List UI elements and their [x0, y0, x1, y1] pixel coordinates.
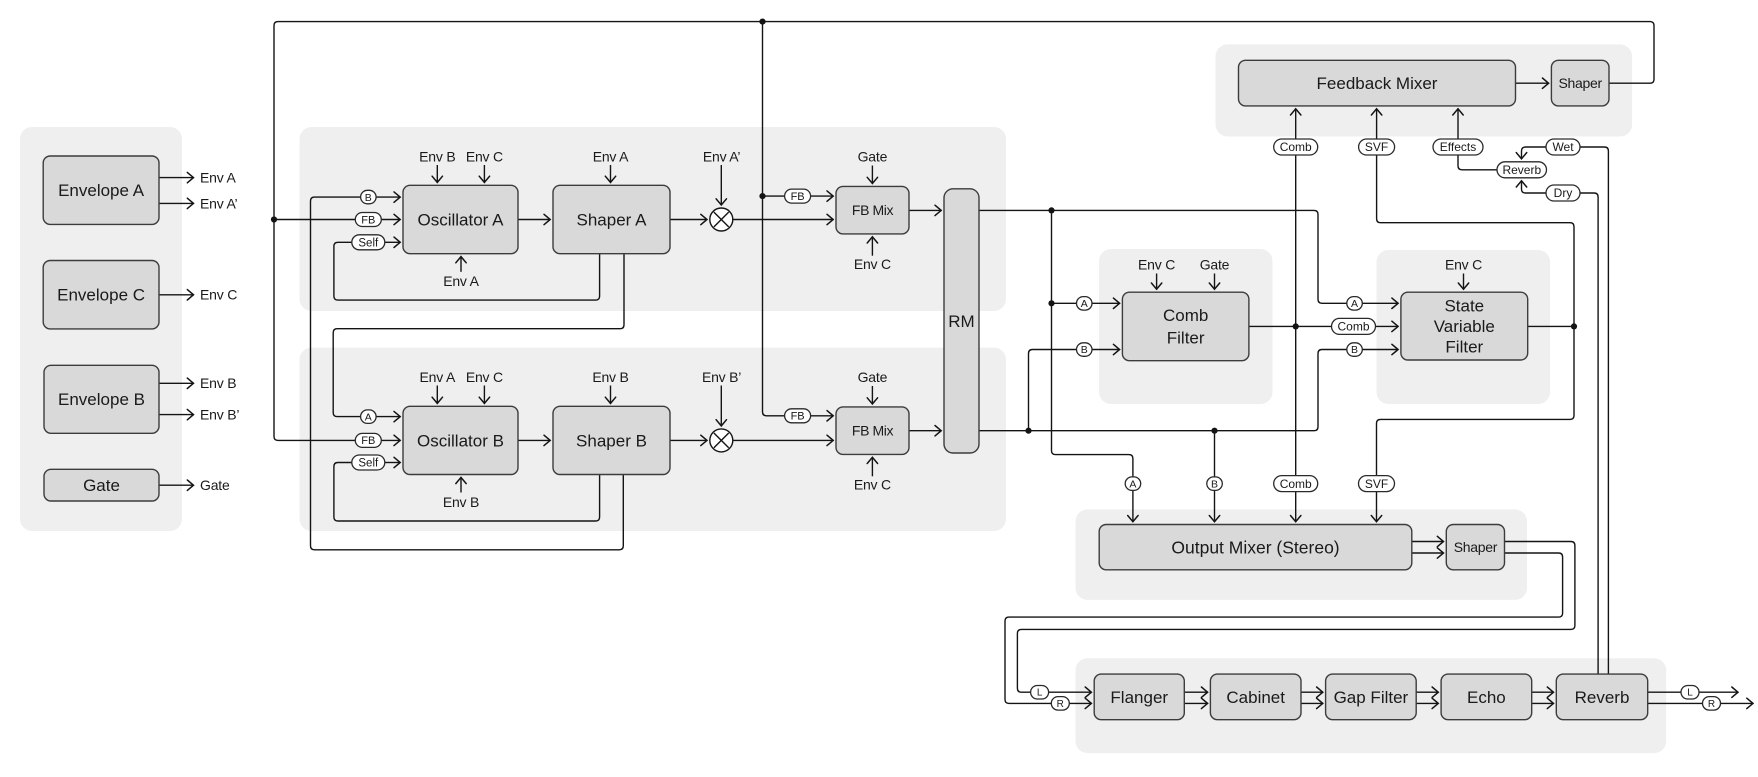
wire Oscillator B to Shaper B — [518, 439, 550, 441]
wire Comb pill arrow into Feedback Mixer — [1295, 109, 1297, 139]
block Gate — [44, 469, 159, 501]
panel output mixer section — [1076, 509, 1528, 600]
svg-text:Shaper A: Shaper A — [577, 210, 648, 229]
wire Envelope C out Env C — [159, 294, 194, 296]
svg-text:Reverb: Reverb — [1575, 688, 1630, 707]
svg-text:Env A’: Env A’ — [703, 148, 741, 164]
label pill SVF input Feedback Mixer — [1359, 139, 1395, 155]
label pill Self input Osc B — [352, 455, 385, 470]
label pill FB input FB Mix B — [785, 409, 811, 423]
wire Shaper L out to Flanger — [1017, 542, 1575, 693]
svg-text:RM: RM — [948, 312, 974, 331]
wire Env C arrow into Oscillator B — [483, 386, 485, 404]
label pill R output — [1703, 697, 1721, 711]
wire Reverb pill to Effects pill — [1458, 155, 1497, 170]
svg-text:Env C: Env C — [854, 477, 891, 493]
block State Variable Filter — [1401, 292, 1528, 360]
wire feedback branch to FB Mix A pill — [763, 195, 785, 197]
wire Env C arrow into FB Mix A bottom — [871, 237, 873, 256]
node Output Mixer B junction — [1211, 428, 1217, 434]
svg-text:Env B: Env B — [200, 375, 236, 391]
wire Output Mixer to Shaper L — [1412, 541, 1444, 543]
svg-text:A: A — [365, 411, 372, 423]
svg-text:Env A: Env A — [200, 170, 236, 186]
svg-text:Env C: Env C — [466, 148, 503, 164]
svg-text:Env B: Env B — [419, 148, 455, 164]
wire Envelope B out Env B — [159, 382, 194, 384]
svg-text:FB Mix: FB Mix — [852, 423, 894, 439]
svg-text:Env A: Env A — [593, 148, 629, 164]
wire Env C arrow into Oscillator A — [483, 165, 485, 182]
svg-text:A: A — [1129, 478, 1136, 490]
wire Env B arrow into Shaper B — [610, 386, 612, 404]
node SVF output junction — [1571, 323, 1577, 329]
svg-text:FB Mix: FB Mix — [852, 202, 894, 218]
panel feedback mixer section — [1216, 44, 1633, 136]
svg-text:State: State — [1444, 296, 1484, 315]
wire Comb B pill arrow — [1092, 349, 1120, 351]
svg-text:L: L — [1037, 688, 1043, 699]
wire RM top output to SVF A pill — [979, 210, 1347, 303]
wire Echo to Reverb R — [1532, 702, 1554, 704]
wire Shaper B to multiplier B — [670, 439, 707, 441]
svg-text:B: B — [1351, 344, 1358, 356]
wire Env C arrow into Comb Filter — [1156, 274, 1158, 290]
multiplier ring mod A — [710, 208, 733, 231]
node RM top output junction — [1048, 207, 1054, 213]
svg-text:Env C: Env C — [1445, 256, 1482, 272]
svg-text:Env C: Env C — [854, 256, 891, 272]
svg-text:Self: Self — [358, 237, 379, 249]
svg-text:Filter: Filter — [1167, 329, 1205, 348]
wire A branch to Output Mixer — [1052, 303, 1133, 477]
block Feedback Mixer — [1239, 60, 1516, 106]
wire SVF pill arrow into Feedback Mixer — [1376, 109, 1378, 139]
wire Effects pill arrow into Feedback Mixer — [1457, 109, 1459, 139]
svg-text:FB: FB — [361, 214, 375, 226]
svg-text:Dry: Dry — [1554, 186, 1573, 200]
label pill R input — [1051, 697, 1069, 711]
svg-text:Gate: Gate — [858, 369, 888, 385]
wire Comb vertical — [1295, 155, 1297, 475]
wire Env B arrow into Oscillator B bottom — [460, 477, 462, 492]
block FB Mix A — [836, 186, 909, 234]
wire SVF pill arrow into Output Mixer — [1376, 492, 1378, 522]
panel effects section — [1076, 658, 1667, 753]
wire Env A arrow into Oscillator A bottom — [460, 257, 462, 272]
svg-text:B: B — [1211, 478, 1218, 490]
node top loop junction — [759, 19, 765, 25]
wire Comb pill arrow into Output Mixer — [1295, 492, 1297, 522]
svg-text:Gate: Gate — [200, 477, 230, 493]
wire Comb Filter output to Comb pill — [1249, 325, 1332, 327]
wire Dry pill arrow into Reverb pill — [1522, 181, 1547, 193]
svg-text:Cabinet: Cabinet — [1226, 688, 1285, 707]
wire Gap Filter to Echo R — [1416, 702, 1438, 704]
svg-text:Env A’: Env A’ — [200, 195, 238, 211]
label pill Wet tap — [1546, 139, 1580, 155]
wire Self loop B from Shaper B bottom — [334, 463, 600, 522]
wire Cabinet to Gap Filter L — [1301, 691, 1323, 693]
wire feedback drop to FB Mix pills — [763, 22, 785, 416]
wire Dry tap from Reverb block — [1580, 193, 1598, 674]
wire Gate out — [159, 484, 194, 486]
block Cabinet — [1210, 674, 1301, 720]
label pill Reverb tap — [1497, 162, 1547, 178]
wire Gate arrow into FB Mix A — [871, 166, 873, 184]
block Reverb block — [1556, 674, 1647, 720]
svg-text:Shaper B: Shaper B — [576, 431, 647, 450]
svg-text:Oscillator A: Oscillator A — [418, 210, 505, 229]
wire A pill arrow into Oscillator B — [376, 416, 400, 418]
wire Env A-prime arrow into multiplier A — [720, 165, 722, 205]
panel oscillator A section — [300, 127, 1007, 311]
label pill A input Output Mixer — [1125, 477, 1141, 491]
svg-text:Env C: Env C — [200, 287, 237, 303]
wire Echo to Reverb L — [1532, 691, 1554, 693]
svg-text:Comb: Comb — [1280, 140, 1312, 154]
label pill FB input Osc A — [355, 213, 381, 227]
panel oscillator B section — [300, 348, 1007, 531]
svg-text:Env B’: Env B’ — [702, 369, 741, 385]
block Oscillator A — [403, 185, 518, 253]
wire R output arrow — [1721, 702, 1754, 704]
svg-text:Gate: Gate — [1200, 256, 1230, 272]
wire RM top branch down — [1051, 210, 1053, 303]
wire SVF B pill arrow — [1362, 349, 1398, 351]
wire Envelope A out Env A — [159, 177, 194, 179]
svg-text:Self: Self — [358, 458, 379, 470]
wire FB pill arrow into Oscillator B — [381, 439, 400, 441]
block Envelope C — [43, 261, 159, 329]
wire Comb pill arrow into SVF — [1376, 325, 1399, 327]
label pill Comb input Feedback Mixer — [1274, 139, 1318, 155]
block FB Mix B — [836, 407, 909, 455]
wire Comb A pill arrow — [1092, 302, 1120, 304]
label pill B input Comb Filter — [1077, 343, 1093, 357]
block Comb Filter — [1122, 292, 1249, 361]
wire B branch to Output Mixer — [1214, 431, 1216, 477]
svg-text:Envelope C: Envelope C — [57, 286, 145, 305]
wire Gap Filter to Echo L — [1416, 691, 1438, 693]
block Output Mixer (Stereo) — [1099, 525, 1412, 570]
wire R pill arrow into Flanger — [1069, 702, 1091, 704]
wire Gate arrow into Comb Filter — [1214, 274, 1216, 290]
wire Feedback Mixer arrow to Shaper — [1515, 82, 1548, 84]
svg-text:Flanger: Flanger — [1110, 688, 1168, 707]
wire SVF output — [1528, 325, 1574, 327]
wire multiplier B to FB Mix B — [733, 439, 833, 441]
wire RM bottom output to SVF B pill — [979, 350, 1347, 431]
label pill Comb input Output Mixer — [1274, 476, 1318, 492]
wire Env C arrow into SVF — [1463, 274, 1465, 290]
svg-text:R: R — [1708, 699, 1715, 710]
wire FB pill arrow into Oscillator A — [381, 219, 400, 221]
wire L pill arrow into Flanger — [1049, 691, 1092, 693]
wire Env A arrow into Oscillator B — [436, 386, 438, 404]
svg-text:Reverb: Reverb — [1502, 163, 1541, 177]
svg-text:Comb: Comb — [1280, 477, 1312, 491]
node Comb output junction — [1293, 323, 1299, 329]
block Envelope A — [43, 156, 159, 224]
svg-text:B: B — [1081, 344, 1088, 356]
svg-text:A: A — [1351, 298, 1358, 310]
block Shaper B — [553, 406, 670, 474]
wire Env B-prime arrow into multiplier B — [720, 386, 722, 426]
label pill B input Osc A — [361, 190, 377, 204]
svg-text:SVF: SVF — [1365, 140, 1388, 154]
label pill B input SVF — [1347, 343, 1363, 357]
node Osc A FB junction — [271, 216, 277, 222]
svg-text:B: B — [365, 192, 372, 204]
wire B pill arrow into Output Mixer — [1214, 491, 1216, 522]
label pill FB input Osc B — [355, 433, 381, 447]
node Comb A junction — [1048, 300, 1054, 306]
label pill Comb input SVF — [1332, 318, 1376, 334]
wire Reverb to L output pill — [1648, 691, 1681, 693]
wire B pill arrow into Oscillator A — [376, 196, 400, 198]
svg-text:Comb: Comb — [1163, 306, 1208, 325]
label pill Self input Osc A — [352, 235, 385, 250]
wire Gate arrow into FB Mix B — [871, 386, 873, 404]
wire Oscillator A to Shaper A — [518, 219, 550, 221]
node Comb B junction — [1025, 428, 1031, 434]
panel envelopes — [20, 127, 182, 531]
wire FB Mix B to RM — [909, 430, 941, 432]
svg-text:FB: FB — [791, 411, 805, 423]
wire Env B arrow into Oscillator A — [436, 165, 438, 182]
wire Reverb to R output pill — [1648, 702, 1703, 704]
wire Self pill arrow into Oscillator B — [385, 462, 400, 464]
label pill B input Output Mixer — [1207, 477, 1223, 491]
svg-text:SVF: SVF — [1365, 477, 1388, 491]
multiplier ring mod B — [710, 429, 733, 452]
svg-text:Shaper: Shaper — [1454, 539, 1498, 555]
block Flanger — [1094, 674, 1184, 720]
wire FB pill arrow into FB Mix B — [811, 415, 834, 417]
svg-text:Echo: Echo — [1467, 688, 1506, 707]
svg-text:Comb: Comb — [1337, 320, 1369, 334]
label pill A input SVF — [1347, 297, 1363, 311]
block Envelope B — [44, 365, 159, 433]
svg-text:FB: FB — [791, 191, 805, 203]
svg-text:A: A — [1081, 298, 1088, 310]
svg-text:Env B: Env B — [443, 494, 479, 510]
svg-text:Env B: Env B — [592, 369, 628, 385]
wire FB Mix A to RM — [909, 209, 941, 211]
svg-text:Variable: Variable — [1434, 317, 1495, 336]
wire SVF output up to Feedback Mixer — [1377, 155, 1574, 326]
svg-text:Env B’: Env B’ — [200, 407, 239, 423]
wire Wet pill arrow into Reverb pill — [1522, 147, 1547, 159]
wire Self pill arrow into Oscillator A — [385, 241, 400, 243]
svg-text:Oscillator B: Oscillator B — [417, 431, 504, 450]
block Echo — [1441, 674, 1532, 720]
wire Shaper R out to Flanger — [1005, 553, 1563, 703]
svg-text:Wet: Wet — [1552, 140, 1574, 154]
wire B branch to Comb Filter pill — [1029, 350, 1077, 431]
svg-text:Shaper: Shaper — [1559, 75, 1603, 91]
wire Envelope B out Env B-prime — [159, 414, 194, 416]
svg-text:Env C: Env C — [1138, 256, 1175, 272]
svg-text:Envelope A: Envelope A — [58, 181, 145, 200]
wire Flanger to Cabinet R — [1184, 702, 1207, 704]
label pill Dry tap — [1546, 185, 1580, 201]
block Shaper feedback — [1551, 60, 1609, 106]
svg-text:Effects: Effects — [1440, 140, 1476, 154]
wire A pill arrow into Output Mixer — [1132, 491, 1134, 522]
wire Env A arrow into Shaper A — [610, 165, 612, 182]
wire Shaper A to multiplier A — [670, 219, 707, 221]
wire SVF output down to Output Mixer — [1377, 326, 1575, 475]
svg-text:L: L — [1687, 688, 1693, 699]
wire Cabinet to Gap Filter R — [1301, 702, 1323, 704]
svg-text:R: R — [1057, 699, 1064, 710]
wire SVF A pill arrow — [1362, 302, 1398, 304]
wire FB pill arrow into FB Mix A — [811, 195, 834, 197]
label pill L output — [1681, 686, 1699, 700]
wire Envelope A out Env A-prime — [159, 202, 194, 204]
svg-text:Envelope B: Envelope B — [58, 390, 145, 409]
label pill A input Osc B — [361, 410, 377, 424]
label pill FB input FB Mix A — [785, 189, 811, 203]
block Shaper output — [1446, 525, 1504, 570]
wire feedback branch to Osc A FB pill — [274, 219, 355, 221]
svg-text:FB: FB — [361, 435, 375, 447]
wire Flanger to Cabinet L — [1184, 691, 1207, 693]
panel comb filter section — [1099, 249, 1273, 404]
label pill A input Comb Filter — [1077, 297, 1093, 311]
block Oscillator B — [403, 406, 518, 474]
wire L output arrow — [1699, 691, 1738, 693]
svg-text:Gate: Gate — [83, 476, 120, 495]
label pill Effects input Feedback Mixer — [1433, 139, 1483, 155]
wire Output Mixer to Shaper R — [1412, 552, 1444, 554]
block Shaper A — [553, 185, 670, 253]
wire A branch to Comb Filter pill — [1052, 302, 1077, 304]
wire multiplier A to FB Mix A — [733, 219, 833, 221]
label pill L input — [1031, 686, 1049, 700]
wire Env C arrow into FB Mix B bottom — [871, 457, 873, 476]
block RM ring modulator — [944, 189, 979, 453]
svg-text:Env A: Env A — [443, 273, 479, 289]
block Gap Filter — [1326, 674, 1417, 720]
node FB Mix A FB junction — [759, 193, 765, 199]
panel svf section — [1377, 250, 1551, 404]
wire Wet tap from Reverb block — [1580, 147, 1608, 674]
svg-text:Gate: Gate — [858, 148, 888, 164]
svg-text:Env C: Env C — [466, 369, 503, 385]
svg-text:Env A: Env A — [420, 369, 456, 385]
svg-text:Gap Filter: Gap Filter — [1334, 688, 1409, 707]
label pill SVF input Output Mixer — [1359, 476, 1395, 492]
wire Shaper A tap to Osc B A-input — [333, 254, 624, 417]
wire Shaper B tap to Osc A B-input — [311, 197, 624, 550]
wire feedback loop top — [274, 22, 1654, 441]
svg-text:Filter: Filter — [1445, 338, 1483, 357]
svg-text:Output Mixer (Stereo): Output Mixer (Stereo) — [1171, 537, 1339, 557]
wire Self loop A from Shaper A bottom — [334, 242, 600, 300]
svg-text:Feedback Mixer: Feedback Mixer — [1317, 74, 1438, 93]
